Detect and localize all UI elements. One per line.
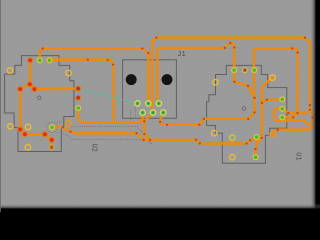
svg-text:J1: J1 (177, 51, 185, 59)
svg-text:U1: U1 (293, 152, 301, 160)
svg-text:U2: U2 (90, 144, 98, 152)
